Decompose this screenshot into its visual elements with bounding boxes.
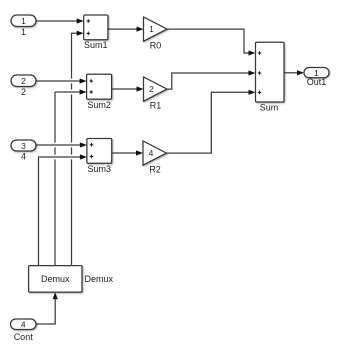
wire R0 to Sum in1	[167, 29, 256, 55]
wire Sum to Out1	[284, 70, 304, 75]
svg-text:Cont: Cont	[14, 332, 34, 342]
Sum2 block	[87, 74, 112, 110]
svg-text:2: 2	[21, 76, 26, 86]
inport 2	[11, 75, 36, 97]
svg-text:1: 1	[21, 16, 26, 26]
inport 3 (named 4)	[11, 140, 36, 162]
inport 4 Cont	[11, 319, 37, 342]
svg-text:3: 3	[21, 141, 26, 151]
gain R0	[144, 17, 168, 51]
svg-text:4: 4	[149, 148, 154, 158]
wire R2 to Sum in3	[167, 90, 256, 153]
Sum3 block	[87, 139, 112, 175]
Sum (tall) block	[256, 42, 285, 112]
wire Sum2 to R1	[112, 86, 144, 91]
svg-text:2: 2	[149, 84, 154, 94]
svg-text:4: 4	[21, 320, 26, 330]
svg-text:Demux: Demux	[85, 274, 114, 284]
Sum1 block	[84, 15, 108, 50]
Demux out3 vertical to Sum1 in2 (gaps at crossings y=81,92,145,157)	[72, 31, 84, 266]
gain R1	[144, 77, 168, 111]
svg-text:R0: R0	[150, 41, 162, 51]
inport 1	[11, 15, 36, 37]
wire Sum1 to R0	[108, 27, 144, 32]
svg-text:2: 2	[21, 87, 26, 97]
wire Sum3 to R2	[112, 150, 143, 155]
wire inport2 to Sum2 in1	[36, 78, 87, 83]
svg-text:R1: R1	[150, 101, 162, 111]
svg-text:4: 4	[21, 152, 26, 162]
wire inport4 to Demux	[36, 292, 58, 324]
outport Out1	[304, 68, 329, 88]
wire R1 to Sum in2	[167, 70, 256, 89]
Demux out1 vertical to Sum3 in2	[39, 154, 87, 265]
wire inport3 to Sum3 in1	[36, 142, 87, 147]
svg-text:Out1: Out1	[307, 77, 327, 87]
Demux block	[29, 266, 82, 293]
svg-text:Sum3: Sum3	[88, 164, 112, 174]
Demux out2 vertical to Sum2 in2 (gaps at crossings y=145,157)	[55, 89, 87, 265]
svg-text:Demux: Demux	[41, 274, 70, 284]
svg-text:1: 1	[21, 27, 26, 37]
svg-text:1: 1	[149, 24, 154, 34]
svg-text:Sum: Sum	[260, 103, 279, 113]
svg-text:R2: R2	[149, 165, 161, 175]
svg-text:Sum1: Sum1	[84, 40, 108, 50]
gain R2	[143, 141, 167, 175]
wire inport1 to Sum1 in1	[36, 18, 84, 23]
svg-text:Sum2: Sum2	[87, 100, 111, 110]
